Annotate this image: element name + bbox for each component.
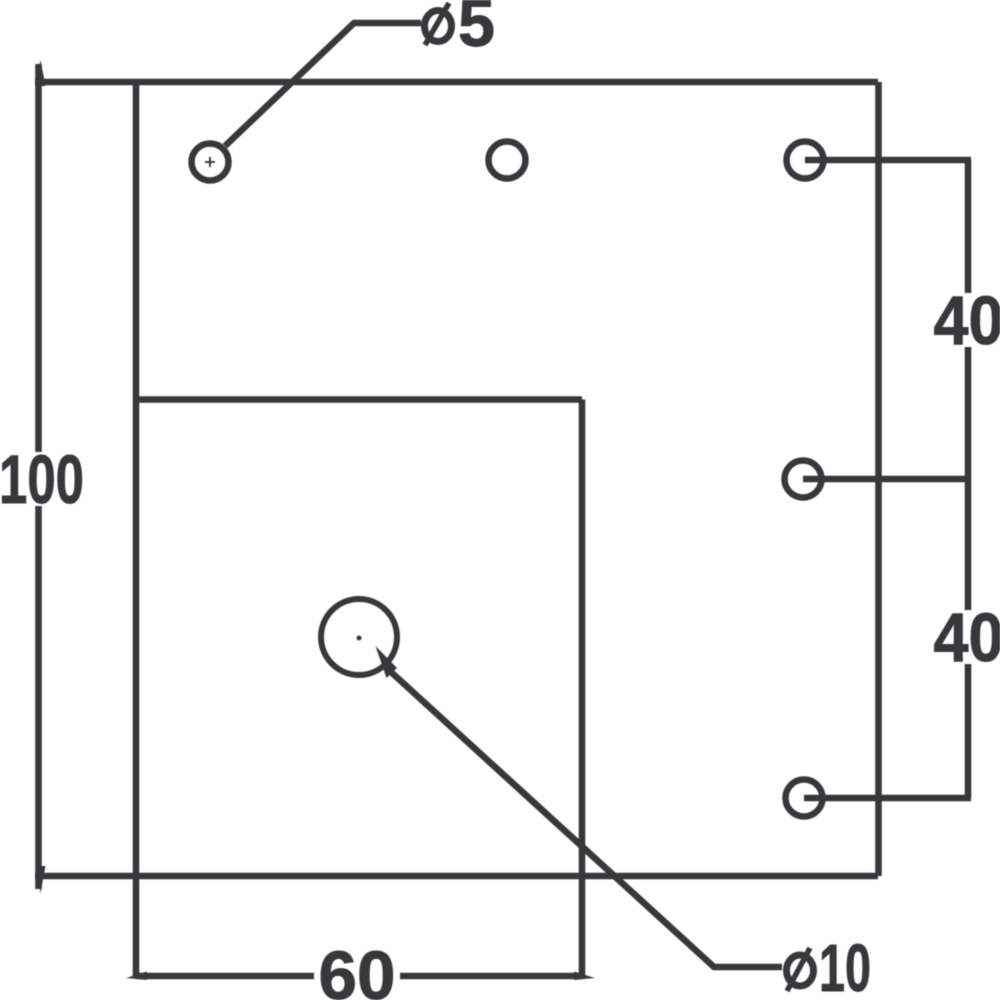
hole C1 center d10 [321,599,397,675]
leader line for hole diameter 10 [391,672,782,967]
boss outline right edge (extends to 60-dim line) [579,400,586,979]
svg-text:10: 10 [819,931,871,1000]
arrowhead leader d10 [376,646,398,678]
extension line from hole B1 [805,157,971,164]
center mark of hole C1 [357,636,362,641]
arrowhead 100-dim bottom [36,866,46,893]
leader text d10 diameter symbol [787,948,814,991]
svg-text:5: 5 [458,0,495,61]
dimension line 60 horizontal [136,973,583,980]
center mark cross of hole A1 [205,157,215,167]
text mask 40 upper [931,293,1000,347]
boss outline top edge [136,396,582,403]
svg-text:60: 60 [319,937,396,1000]
dimension line 100 vertical [35,64,42,889]
hole B1 top-right d5 [787,142,824,179]
extension line from hole B3 [804,795,971,802]
plate outline right edge [875,82,882,876]
hole A2 top-middle d5 [489,142,526,179]
svg-text:100: 100 [0,441,84,518]
hole A1 top-left d5 [192,144,229,181]
arrowhead 60-dim right [574,972,595,981]
plate outline bottom edge [35,873,878,880]
text mask 40 lower [931,610,1000,664]
text mask 100 [0,452,84,506]
hole B2 middle-right d5 [785,461,822,498]
svg-text:40: 40 [934,599,1000,676]
plate outline top edge [35,79,878,86]
dimension line 40 upper-lower vertical [965,160,972,798]
leader line for hole diameter 5 [225,23,421,146]
leader text d5 diameter symbol [425,3,452,45]
arrowhead 100-dim top [36,60,46,86]
extension line from hole B2 [803,476,971,483]
arrowhead 60-dim left [126,972,147,981]
text mask 60 [314,949,400,1000]
hole B3 bottom-right d5 [786,780,823,817]
plate outline left edge (extends to 60-dim line) [133,82,140,978]
svg-text:40: 40 [934,282,1000,359]
